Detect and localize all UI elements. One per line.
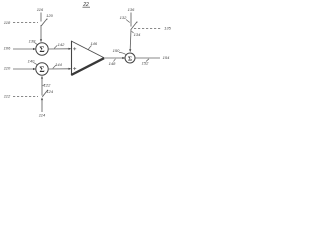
svg-text:144: 144: [55, 62, 62, 67]
svg-text:132: 132: [120, 15, 127, 20]
svg-text:135: 135: [164, 26, 171, 31]
svg-text:Σ: Σ: [39, 45, 44, 54]
svg-text:110: 110: [4, 66, 11, 71]
svg-text:106: 106: [4, 46, 11, 51]
svg-text:Σ: Σ: [128, 55, 132, 62]
svg-text:122: 122: [44, 83, 51, 88]
svg-text:124: 124: [46, 89, 53, 94]
svg-text:22: 22: [82, 2, 89, 8]
svg-text:120: 120: [46, 13, 53, 18]
svg-text:118: 118: [4, 20, 11, 25]
svg-text:152: 152: [142, 61, 149, 66]
svg-text:136: 136: [128, 7, 135, 12]
svg-text:134: 134: [134, 32, 141, 37]
svg-text:116: 116: [37, 7, 44, 12]
svg-text:Σ: Σ: [39, 65, 44, 74]
svg-text:140: 140: [28, 59, 35, 64]
svg-text:146: 146: [90, 41, 97, 46]
svg-text:142: 142: [58, 42, 65, 47]
svg-text:148: 148: [109, 61, 116, 66]
svg-text:154: 154: [163, 55, 170, 60]
svg-text:150: 150: [113, 48, 120, 53]
svg-text:112: 112: [4, 93, 11, 98]
svg-text:114: 114: [39, 112, 46, 117]
svg-text:138: 138: [29, 39, 36, 44]
